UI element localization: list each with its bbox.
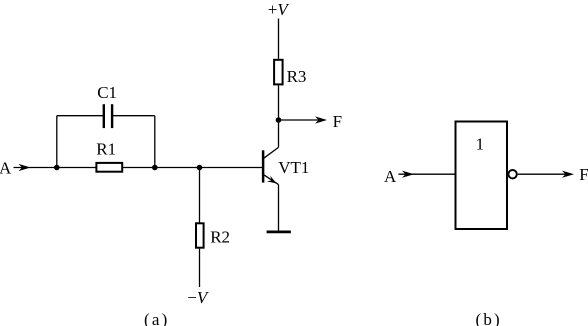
wire main input line (a): [14, 167, 263, 169]
junction node base / R2: [197, 165, 203, 171]
output arrowhead (a): [315, 116, 327, 123]
wire emitter vertical: [278, 185, 280, 231]
ground: [267, 230, 291, 233]
svg-text:(a): (a): [144, 310, 169, 326]
resistor R2: [196, 223, 204, 247]
input arrowhead (a): [19, 164, 31, 171]
svg-text:R2: R2: [210, 228, 230, 247]
capacitor C1: [104, 104, 112, 128]
wire R2 to -V: [199, 249, 201, 287]
wire collector node to R3: [278, 85, 280, 120]
resistor R1: [96, 163, 122, 172]
wire R2 branch vertical: [199, 168, 201, 224]
svg-text:1: 1: [476, 135, 485, 154]
wire C1 branch right vertical: [154, 116, 156, 168]
wire R3 to +V: [278, 19, 280, 59]
junction node collector / F: [276, 117, 282, 123]
svg-text:VT1: VT1: [278, 158, 309, 177]
svg-text:F: F: [579, 165, 588, 184]
svg-text:F: F: [333, 112, 342, 131]
transistor VT1: [263, 147, 278, 184]
wire output line (b): [518, 173, 569, 175]
svg-text:A: A: [0, 159, 12, 178]
NOT gate U1 body: [456, 122, 508, 230]
wire input line (b): [399, 173, 455, 175]
junction node right of RC: [152, 165, 158, 171]
wire C1 top right segment: [113, 115, 155, 117]
svg-text:(b): (b): [476, 310, 502, 326]
wire output F branch (a): [279, 119, 323, 121]
input arrowhead (b): [402, 171, 414, 178]
svg-text:+V: +V: [268, 0, 291, 19]
wire C1 branch left vertical: [56, 116, 58, 168]
svg-text:R1: R1: [96, 140, 116, 159]
wire collector vertical: [278, 120, 280, 147]
svg-text:A: A: [384, 167, 397, 186]
wire C1 top left segment: [57, 115, 103, 117]
junction node left of RC: [54, 165, 60, 171]
resistor R3: [274, 60, 283, 85]
svg-text:C1: C1: [97, 83, 117, 102]
svg-text:−V: −V: [187, 288, 210, 307]
inversion bubble: [508, 170, 516, 178]
output arrowhead (b): [562, 171, 574, 178]
svg-text:R3: R3: [287, 67, 307, 86]
